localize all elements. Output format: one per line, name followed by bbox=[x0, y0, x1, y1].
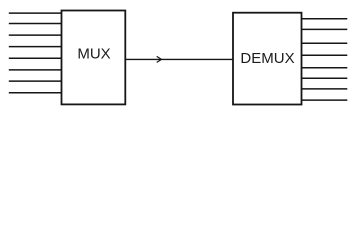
input wire I3 bbox=[9, 46, 62, 48]
output wire O4 bbox=[302, 67, 348, 69]
input wire I2 bbox=[9, 34, 62, 36]
input wire I0 bbox=[9, 12, 62, 14]
output wire O6 bbox=[302, 88, 348, 90]
output wire O7 bbox=[302, 99, 348, 101]
output wire O3 bbox=[302, 54, 348, 56]
output wire O0 bbox=[302, 18, 348, 20]
svg-text:DEMUX: DEMUX bbox=[240, 50, 294, 67]
svg-text:MUX: MUX bbox=[77, 46, 110, 63]
input wire I6 bbox=[9, 80, 62, 82]
arrowhead bbox=[157, 56, 162, 62]
wire U1 output to U2 input bbox=[125, 58, 233, 60]
output wire O2 bbox=[302, 42, 348, 44]
input wire I4 bbox=[9, 57, 62, 59]
multiplexer U1 bbox=[62, 11, 126, 105]
output wire O1 bbox=[302, 28, 348, 30]
input wire I7 bbox=[9, 92, 62, 94]
input wire I5 bbox=[9, 69, 62, 71]
output wire O5 bbox=[302, 77, 348, 79]
demultiplexer U2 bbox=[233, 13, 302, 105]
input wire I1 bbox=[9, 23, 62, 25]
